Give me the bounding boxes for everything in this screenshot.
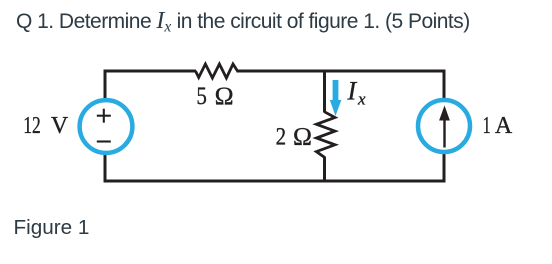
wire: bottom rail	[105, 154, 444, 181]
svg-text:1: 1	[483, 113, 491, 139]
label: 12 V	[23, 113, 69, 139]
svg-text:2: 2	[276, 122, 287, 151]
wire: top middle-to-right segment	[237, 71, 445, 99]
current source I1 circle (1 A)	[418, 100, 470, 152]
title: question text	[16, 11, 470, 38]
voltage source plus sign	[97, 109, 111, 123]
label: 2 ohm	[276, 122, 312, 151]
svg-text:Ω: Ω	[215, 81, 234, 110]
svg-text:I: I	[347, 76, 358, 105]
current Ix arrow (cyan, downward)	[330, 80, 342, 116]
wire: middle branch top vertical	[323, 70, 326, 113]
voltage source minus sign	[97, 140, 111, 142]
wire: top-left segment with left vertical drop to voltage source	[105, 71, 196, 99]
caption: Figure 1	[14, 218, 90, 239]
resistor R1 5-ohm zigzag (top)	[196, 64, 238, 78]
voltage source V1 circle (12 V)	[80, 100, 133, 153]
svg-text:V: V	[51, 113, 69, 139]
svg-text:12: 12	[23, 113, 41, 139]
resistor R2 2-ohm zigzag (middle branch)	[316, 112, 335, 158]
svg-text:A: A	[495, 113, 513, 139]
label: 1 A	[483, 113, 513, 139]
label: 5 ohm	[196, 81, 233, 110]
svg-text:x: x	[357, 90, 366, 109]
wire: middle branch bottom vertical	[323, 157, 326, 183]
label: Ix current label	[347, 76, 367, 108]
current source arrow (upward)	[439, 106, 450, 148]
svg-text:5: 5	[196, 81, 207, 110]
svg-text:Ω: Ω	[293, 122, 312, 151]
